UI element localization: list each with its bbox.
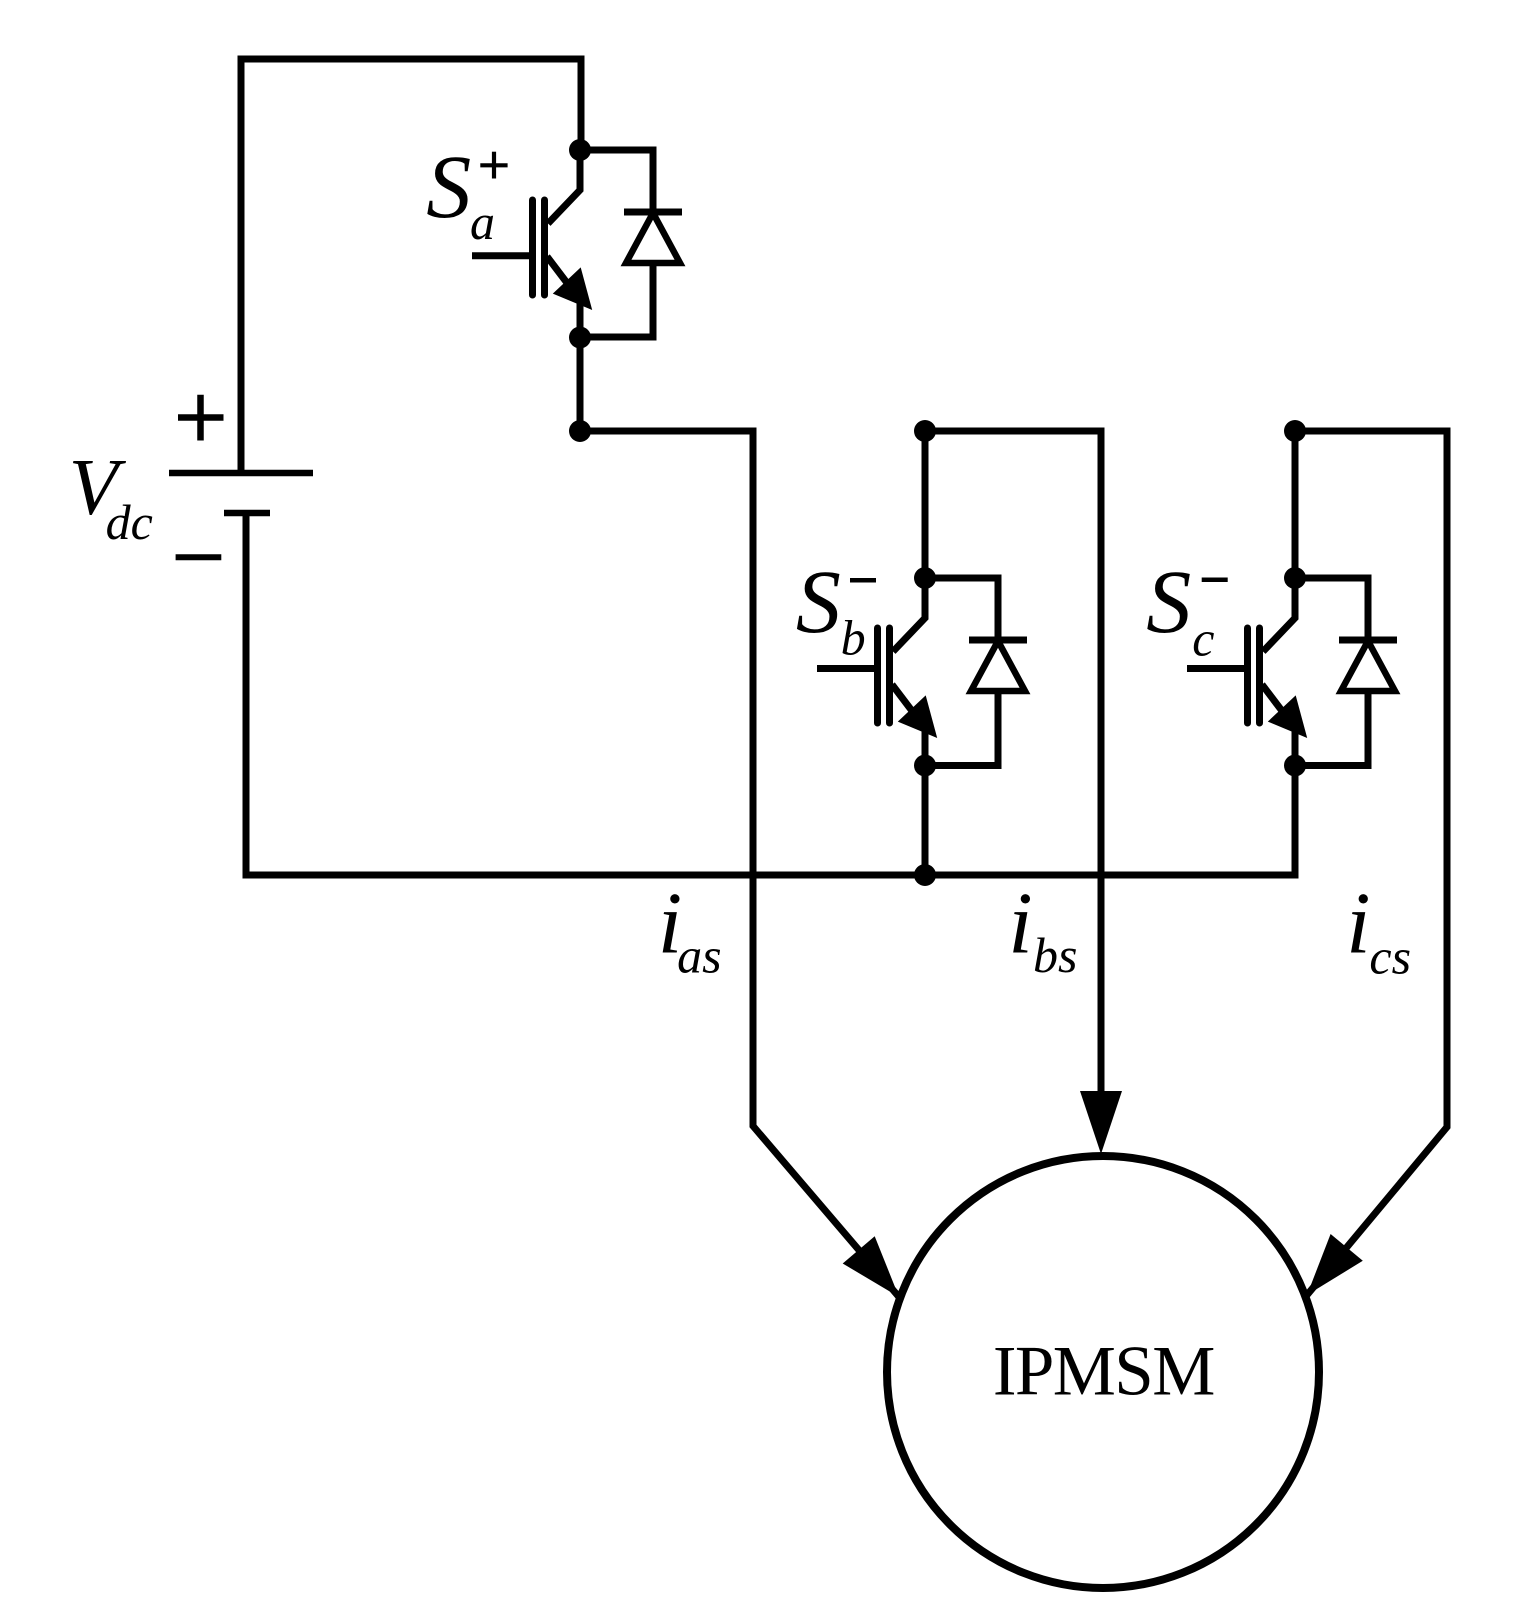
svg-text:i: i — [1346, 875, 1370, 972]
svg-text:bs: bs — [1033, 927, 1077, 983]
svg-text:as: as — [677, 927, 721, 983]
svg-text:S: S — [796, 553, 841, 652]
svg-text:a: a — [470, 194, 495, 250]
svg-text:dc: dc — [106, 494, 153, 550]
svg-text:c: c — [1192, 611, 1214, 667]
svg-text:b: b — [841, 610, 866, 666]
svg-text:IPMSM: IPMSM — [993, 1332, 1214, 1410]
svg-text:S: S — [1146, 553, 1191, 652]
svg-text:i: i — [1008, 875, 1032, 972]
svg-text:S: S — [426, 138, 471, 237]
svg-text:cs: cs — [1369, 929, 1411, 985]
